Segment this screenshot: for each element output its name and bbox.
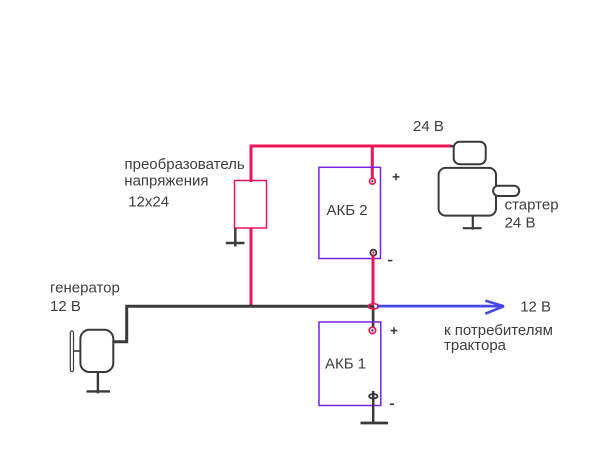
generator shaft xyxy=(74,350,81,352)
svg-text:трактора: трактора xyxy=(444,337,507,354)
wire: red converter output down to 12V bus xyxy=(250,228,253,307)
svg-text:12 В: 12 В xyxy=(50,298,81,315)
plus sign AKB2 xyxy=(393,173,400,180)
battery AKB1 box xyxy=(319,322,381,406)
svg-text:генератор: генератор xyxy=(50,279,120,296)
stub: connector red wire to starter solenoid xyxy=(451,145,455,147)
node: junction red ellipse on 12V bus xyxy=(368,304,378,309)
ground at generator xyxy=(87,372,111,394)
voltage converter 12x24 box xyxy=(235,181,267,229)
starter body xyxy=(439,168,496,216)
blue arrow: 12V to tractor consumers xyxy=(377,305,502,308)
ground at starter xyxy=(463,216,482,230)
generator pulley xyxy=(70,331,73,372)
svg-text:АКБ 1: АКБ 1 xyxy=(325,355,366,372)
generator body xyxy=(80,330,113,372)
wire: red drop from 24V wire down to AKB2 plus terminal xyxy=(371,146,374,179)
svg-text:12х24: 12х24 xyxy=(128,193,169,210)
ground bar below AKB1 xyxy=(361,422,389,425)
wire: red from AKB2 minus down to 12V bus junction xyxy=(372,256,375,305)
wire: black 12V bus from generator corner to junction xyxy=(112,306,374,342)
svg-text:24 В: 24 В xyxy=(413,118,444,135)
terminal: AKB1 minus ellipse and wire to ground xyxy=(372,391,375,424)
terminal: AKB2 plus circle xyxy=(370,178,376,184)
svg-text:напряжения: напряжения xyxy=(124,172,208,189)
terminal: AKB2 minus circle xyxy=(370,250,376,256)
starter solenoid box xyxy=(454,142,486,165)
plus sign AKB1 xyxy=(391,327,398,334)
minus sign AKB1 xyxy=(390,403,394,405)
svg-text:АКБ 2: АКБ 2 xyxy=(327,202,368,219)
wire: black drop from junction to AKB1 plus xyxy=(372,306,375,327)
starter side lug xyxy=(493,186,519,196)
terminal: AKB1 plus circle xyxy=(369,327,375,333)
svg-text:24 В: 24 В xyxy=(505,215,536,232)
minus sign AKB2 xyxy=(388,260,393,262)
battery AKB2 box xyxy=(319,167,381,258)
svg-text:стартер: стартер xyxy=(505,196,559,213)
svg-text:12 В: 12 В xyxy=(520,299,551,316)
svg-text:преобразователь: преобразователь xyxy=(125,156,245,173)
ground at converter xyxy=(226,228,245,247)
wire: red +24V wire from converter up and right to starter solenoid xyxy=(251,146,452,182)
